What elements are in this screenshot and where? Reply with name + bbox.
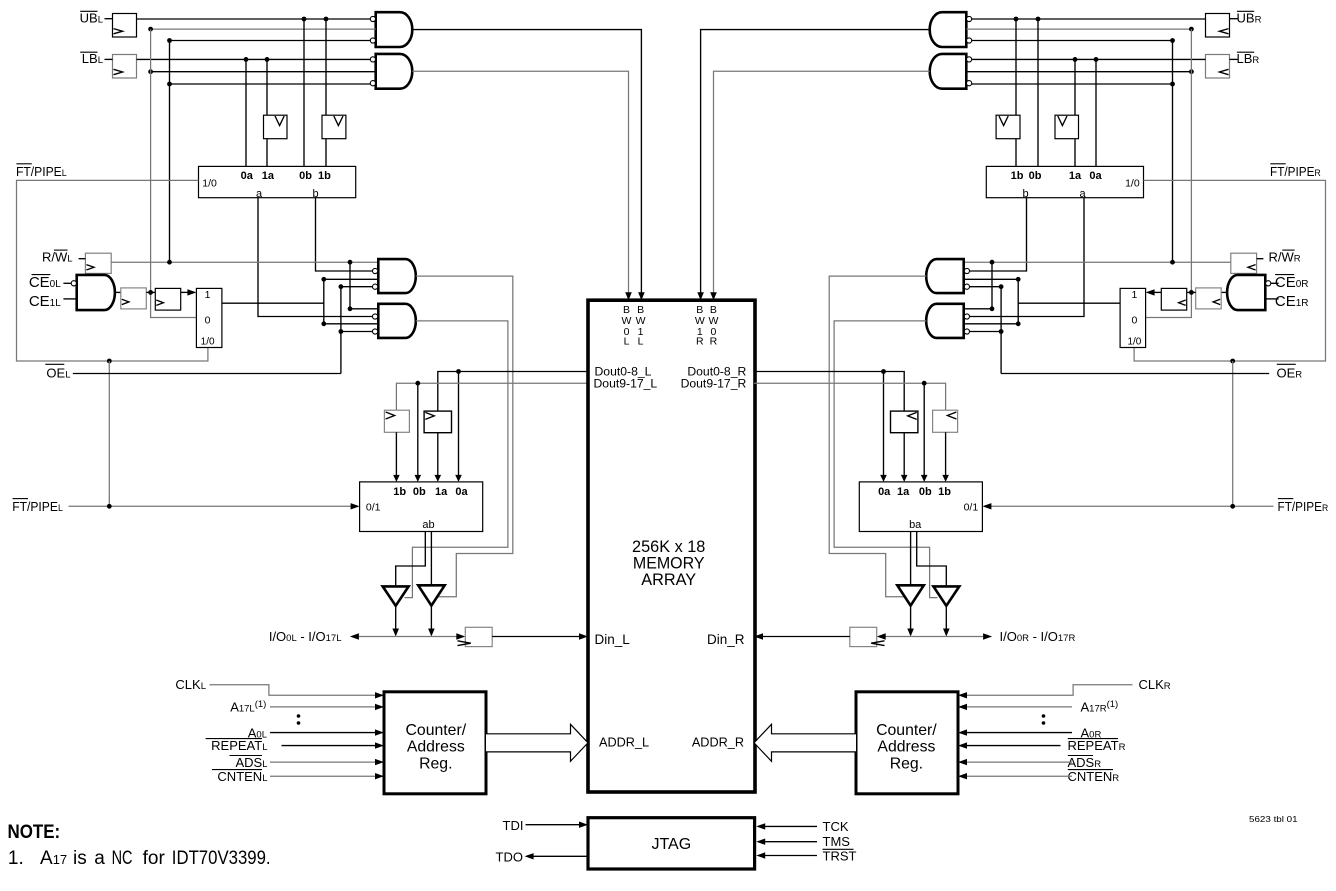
svg-text:Reg.: Reg.	[890, 755, 923, 772]
svg-text:Address: Address	[407, 739, 465, 756]
svg-text:Reg.: Reg.	[419, 755, 452, 772]
latch R/WR register	[1231, 253, 1257, 273]
wire select out right	[1018, 302, 1120, 304]
label CLKL	[175, 677, 206, 692]
junction RWR riser at UB in3	[1170, 38, 1175, 43]
wire FT/PIPEL to mux select	[17, 180, 208, 361]
pin 1b top mux left	[318, 170, 331, 182]
wire LBR_Q to LB gate	[972, 58, 1206, 60]
wire CE gate to latchA	[115, 291, 121, 293]
junction UBL_Q at 1b riser	[324, 17, 329, 22]
arrow BW0L into memory	[625, 292, 632, 300]
junction CER riser at UB in2	[1189, 27, 1194, 32]
pin Dout0-8_R label	[687, 364, 746, 378]
arrow A0R into counter	[958, 729, 967, 735]
bubble gate1R in4	[964, 284, 969, 289]
junction RW riser on RW line	[167, 260, 172, 265]
svg-text:0b: 0b	[919, 486, 932, 498]
and-gate OE lower right	[926, 304, 964, 338]
label 5623 tbl 01	[1249, 815, 1298, 824]
label CE0R	[1275, 274, 1309, 291]
junction CER node	[1189, 290, 1194, 295]
svg-text:R/WR: R/WR	[1269, 250, 1301, 265]
wire select to gate2 in3	[324, 323, 379, 325]
svg-text:1b: 1b	[393, 486, 406, 498]
wire CE1L tie	[63, 298, 76, 300]
wire R/WR pin tie	[1257, 258, 1264, 260]
bubble LBR gate input 3	[967, 81, 972, 86]
svg-text:256K x 18: 256K x 18	[632, 538, 705, 556]
svg-text:L: L	[638, 335, 644, 347]
arrow CLKR into counter	[958, 692, 967, 698]
bubble LB gate input 3	[370, 81, 375, 86]
bubble CE0R input	[1266, 281, 1271, 286]
svg-text:ab: ab	[422, 519, 434, 531]
wire CNTENR	[967, 775, 1072, 777]
svg-text:CE0L: CE0L	[29, 274, 61, 291]
svg-text:a: a	[94, 848, 105, 869]
bubble LBR gate input 1	[967, 57, 972, 62]
arrow 0b into dout mux	[415, 475, 422, 482]
wire FT/PIPER to dout mux	[991, 505, 1274, 507]
wire mux-ba a to tri1R	[917, 532, 947, 587]
svg-text:0a: 0a	[1089, 170, 1102, 182]
wire CLKR	[967, 685, 1133, 696]
pin 1b dout mux left	[393, 486, 406, 498]
label A17R	[1081, 699, 1119, 715]
pin 0a top mux left	[241, 170, 254, 182]
and-gate OE upper right	[926, 259, 964, 293]
svg-text:1/0: 1/0	[1125, 178, 1140, 190]
svg-text:A17R(1): A17R(1)	[1081, 699, 1119, 715]
counter/address reg box left	[384, 692, 486, 794]
junction OER at gate1	[999, 284, 1004, 289]
and-gate UB write enable left	[376, 12, 413, 47]
wire CE0L tie	[63, 282, 71, 284]
svg-text:CE0R: CE0R	[1275, 274, 1309, 291]
latch CE chain A	[121, 288, 147, 309]
arrow CNTENL into counter	[375, 773, 384, 779]
label TRST	[823, 848, 857, 863]
svg-text:JTAG: JTAG	[651, 836, 691, 853]
wire R/WL out to gate1	[111, 261, 378, 263]
wire tri2R to IO	[910, 606, 912, 629]
wire LBR gate out to BW0R	[714, 71, 930, 293]
svg-text:1/0: 1/0	[202, 178, 217, 190]
junction CE riser at LB in2	[148, 69, 153, 74]
label R/WL	[42, 250, 73, 265]
wire 1b riser lower	[325, 139, 327, 167]
svg-text:ADSR: ADSR	[1068, 755, 1102, 770]
wire OER to gate2 in4	[970, 331, 1002, 333]
junction UBR_Q at 1b riser	[1014, 17, 1019, 22]
wire LBR pin tie	[1230, 58, 1238, 60]
arrow ADSR into counter	[958, 759, 967, 765]
pin 0b dout mux right	[919, 486, 932, 498]
note heading	[8, 822, 61, 843]
wire LB gate out to BW0L	[412, 71, 628, 293]
pin b top mux right	[1022, 188, 1028, 200]
wire RW riser left	[169, 41, 171, 263]
svg-text:NC: NC	[112, 848, 133, 869]
wire CNTENL	[270, 775, 375, 777]
bus ADDR_R arrow	[754, 724, 856, 761]
wire FT/PIPER to mux select	[1134, 180, 1325, 361]
svg-text:FT/PIPER: FT/PIPER	[1270, 164, 1321, 179]
arrow Din_L into memory	[579, 633, 588, 639]
wire RW to UB gate input3	[170, 40, 371, 42]
selector box CE 1/0 right	[1120, 288, 1146, 347]
junction select to gate1	[321, 277, 326, 282]
svg-text:1b: 1b	[318, 170, 331, 182]
svg-text:B: B	[696, 304, 703, 316]
bubble UBR gate input 1	[967, 16, 972, 21]
label LBL	[80, 51, 103, 66]
svg-text:R/WL: R/WL	[42, 250, 73, 265]
wire select out	[222, 302, 324, 304]
junction UBR_Q at 0b riser	[1036, 17, 1041, 22]
svg-text:Counter/: Counter/	[406, 722, 467, 739]
latch UBL input register	[113, 14, 137, 38]
wire select to gate2 in3 right	[964, 323, 1019, 325]
label OER	[1277, 364, 1303, 380]
label memory title	[632, 538, 705, 589]
mux Dout right	[859, 482, 982, 532]
arrow FT/PIPER into dout mux	[982, 503, 991, 509]
arrow IO left out	[350, 633, 359, 639]
label I/O left	[269, 629, 342, 644]
pin Dout0-8_L label	[595, 364, 652, 378]
svg-text:TMS: TMS	[823, 834, 851, 849]
svg-text:B: B	[637, 304, 644, 316]
pin Dout9-17_L label	[594, 377, 658, 391]
svg-text:0/1: 0/1	[964, 502, 979, 514]
wire mux-ba b to tri2R	[910, 532, 912, 586]
wire CE0R tie	[1271, 282, 1279, 284]
latch CER chain A	[1196, 288, 1222, 309]
svg-text:I/O0L - I/O17L: I/O0L - I/O17L	[269, 629, 342, 644]
svg-text:IDT70V3399.: IDT70V3399.	[172, 848, 271, 869]
arrow A0L into counter	[375, 729, 384, 735]
wire LBL pin tie	[105, 58, 113, 60]
latch Dout 1a pipeline right	[891, 411, 918, 433]
pin BW0R column	[708, 304, 718, 348]
label A0R	[1081, 725, 1102, 740]
junction CE node	[148, 290, 153, 295]
svg-text:0b: 0b	[1029, 170, 1042, 182]
pin 1 select box left	[205, 289, 211, 301]
wire CE chain to UBR gate input2	[966, 28, 1191, 30]
pin 1/0 top mux right	[1125, 178, 1140, 190]
label REPEATL	[206, 738, 268, 753]
wire mux-a to gate2	[258, 198, 373, 317]
wire CLKL	[210, 685, 376, 696]
latch LBR input register	[1206, 55, 1230, 79]
wire TDO	[533, 855, 588, 857]
wire select riser	[323, 279, 325, 324]
svg-text:a: a	[256, 188, 263, 200]
counter/address reg box right	[856, 692, 958, 794]
svg-text:LBL: LBL	[82, 51, 103, 66]
wire 1b riser lower right	[1015, 139, 1017, 167]
wire 1a riser lower right	[1074, 139, 1076, 167]
pin 0 select box left	[205, 314, 211, 326]
buffer tri2 right	[897, 585, 924, 605]
junction LBR_Q at 0a riser	[1094, 57, 1099, 62]
pin 0b dout mux left	[413, 486, 426, 498]
wire Din latch to memory	[492, 636, 580, 638]
svg-text:5623 tbl 01: 5623 tbl 01	[1249, 815, 1298, 824]
wire A0L	[270, 732, 375, 734]
svg-text:CE1R: CE1R	[1275, 293, 1309, 310]
svg-text:ADDR_R: ADDR_R	[692, 735, 744, 749]
wire Dout9-17_L	[396, 383, 588, 410]
wire UBR_Q to UB gate	[972, 18, 1206, 20]
wire select to gate1 in3 right	[964, 278, 1019, 280]
and-gate CE left	[77, 275, 115, 310]
bubble UB gate input 3	[370, 38, 375, 43]
junction RW riser at UB in3	[167, 38, 172, 43]
wire latchB to select box	[181, 291, 188, 293]
wire IO line left	[359, 636, 457, 638]
svg-text:Dout9-17_R: Dout9-17_R	[681, 377, 747, 391]
jtag box	[588, 818, 755, 869]
svg-text:1: 1	[1131, 289, 1137, 301]
arrow TCK into jtag	[756, 823, 765, 829]
arrow tri2 to IO	[428, 629, 435, 637]
memory array box	[588, 300, 755, 792]
junction CER riser at LB in2	[1189, 69, 1194, 74]
wire Dout0-8_L	[438, 372, 588, 412]
pin 0b top mux right	[1029, 170, 1042, 182]
pin 1a dout mux left	[435, 486, 448, 498]
junction Dout0-8_L	[456, 369, 461, 374]
wire tri1 to IO	[395, 606, 397, 629]
label TCK	[823, 819, 849, 834]
wire gate1 out to tri2 enable	[416, 276, 513, 597]
wire R/WL pin tie	[79, 258, 86, 260]
svg-text:for: for	[143, 848, 166, 869]
bubble gate2R in2	[964, 314, 969, 319]
label CNTENL	[212, 769, 268, 784]
wire UB gate out to BW1L	[412, 30, 641, 293]
svg-text:1b: 1b	[1011, 170, 1024, 182]
wire RW riser right	[1172, 41, 1174, 263]
wire REPEATR	[967, 745, 1061, 747]
note line 1	[8, 848, 271, 869]
arrow Din_R into memory	[754, 633, 763, 639]
wire OEL riser	[340, 287, 342, 374]
junction LBR_Q at 1a riser	[1073, 57, 1078, 62]
wire Dout0-8_L to 0a	[458, 372, 460, 476]
arrow TDO out	[525, 853, 534, 859]
wire UBR gate out to BW1R	[701, 30, 930, 293]
wire Dout0-8_R to 0a	[883, 372, 885, 476]
svg-text:R: R	[710, 335, 718, 347]
label LBR	[1237, 51, 1260, 66]
junction select to gate2 right	[1016, 321, 1021, 326]
svg-text:0b: 0b	[413, 486, 426, 498]
svg-text:is: is	[73, 848, 87, 869]
wire REPEATL	[282, 745, 376, 747]
wire 0b riser right	[1037, 19, 1039, 166]
pin 1b top mux right	[1011, 170, 1024, 182]
wire latch1b to mux	[395, 432, 397, 475]
and-gate OE lower left	[378, 304, 416, 338]
label CE1R	[1275, 293, 1309, 310]
wire mux-b to gate1 right	[970, 198, 1027, 271]
svg-text:1a: 1a	[262, 170, 275, 182]
and-gate LB write enable left	[376, 54, 413, 89]
wire CE riser right	[1146, 29, 1192, 317]
wire 1a riser lower	[266, 139, 268, 167]
svg-text:A17: A17	[40, 848, 67, 869]
svg-text:Din_L: Din_L	[595, 632, 631, 647]
arrow 1b into dout mux	[393, 475, 400, 482]
junction RW at gate2 in1	[348, 306, 353, 311]
junction Dout9-17_R	[922, 381, 927, 386]
bubble gate2 in4	[373, 329, 378, 334]
bubble gate2 in2	[373, 314, 378, 319]
svg-text:NOTE:: NOTE:	[8, 822, 61, 843]
pin 0a top mux right	[1089, 170, 1102, 182]
svg-text:L: L	[624, 335, 630, 347]
latch CE chain B	[155, 288, 180, 310]
junction FT/PIPEL bottom	[107, 504, 112, 509]
svg-text:REPEATR: REPEATR	[1068, 738, 1126, 753]
arrow BW1R into memory	[697, 292, 704, 300]
svg-text:1a: 1a	[435, 486, 448, 498]
latch Din left	[458, 627, 493, 646]
wire A0R	[967, 732, 1072, 734]
arrow tri1 to IO	[392, 629, 399, 637]
label A0L	[248, 725, 267, 740]
junction RW riser at LB in3	[167, 82, 172, 87]
wire R/WR out to gate1	[964, 261, 1231, 263]
junction RWR riser at LB in3	[1170, 82, 1175, 87]
pin b top mux left	[312, 188, 318, 200]
svg-text:1: 1	[205, 289, 211, 301]
pin ba dout mux right	[909, 519, 922, 531]
wire gate1R out to tri2R enable	[829, 276, 926, 597]
pin Dout9-17_R label	[681, 377, 747, 391]
wire tri2 to IO	[430, 606, 432, 629]
wire Dout9-17_R	[754, 383, 946, 410]
svg-text:I/O0R - I/O17R: I/O0R - I/O17R	[1000, 629, 1076, 644]
arrow into Din latch	[456, 633, 465, 639]
wire latchA to latchB right	[1187, 291, 1196, 293]
wire RW branch to gate2 in1	[350, 262, 378, 309]
pin 1/0 select box right	[1127, 336, 1141, 347]
svg-text:B: B	[623, 304, 630, 316]
pin 0 select box right	[1131, 314, 1137, 326]
svg-text:CNTENL: CNTENL	[217, 769, 267, 784]
junction RWR riser on RW line	[1170, 260, 1175, 265]
pin BW1R column	[695, 304, 705, 348]
junction select to gate2	[321, 321, 326, 326]
latch Dout 1b pipeline left	[384, 410, 409, 432]
arrow REPEATR into counter	[958, 742, 967, 748]
wire IO line right	[885, 636, 983, 638]
svg-text:ba: ba	[909, 519, 922, 531]
junction OE at gate1	[339, 284, 344, 289]
label CLKR	[1139, 677, 1171, 692]
svg-text:TCK: TCK	[823, 819, 849, 834]
svg-text:REPEATL: REPEATL	[211, 738, 267, 753]
svg-text:UBR: UBR	[1237, 10, 1262, 25]
mux byte-enable left	[199, 166, 356, 197]
svg-text:0a: 0a	[455, 486, 468, 498]
svg-text:TRST: TRST	[823, 848, 857, 863]
junction OER at gate2	[999, 329, 1004, 334]
and-gate LB write enable right	[930, 54, 967, 89]
label FT/PIPER bottom	[1278, 499, 1329, 515]
label ADSR	[1068, 755, 1102, 770]
svg-text:1a: 1a	[897, 486, 910, 498]
wire OE to gate2 in4	[341, 331, 373, 333]
arrow tri1R to IO	[943, 629, 950, 637]
svg-text:R: R	[696, 335, 704, 347]
wire latchB to select box right	[1154, 291, 1161, 293]
svg-text:FT/PIPEL: FT/PIPEL	[12, 499, 63, 514]
wire latch1a to mux	[437, 433, 439, 476]
svg-text:ADSL: ADSL	[235, 755, 267, 770]
wire 0a riser right	[1095, 59, 1097, 166]
and-gate CE right	[1227, 275, 1265, 310]
arrow TRST into jtag	[756, 852, 765, 858]
svg-text:0a: 0a	[878, 486, 891, 498]
bubble UB gate input 1	[370, 16, 375, 21]
wire CE riser left	[151, 29, 197, 317]
pin 1a dout mux right	[897, 486, 910, 498]
arrow A17L into counter	[375, 704, 384, 710]
bubble CE0L input	[71, 281, 76, 286]
pin 1/0 select box left	[201, 336, 215, 347]
and-gate UB write enable right	[930, 12, 967, 47]
pin ab dout mux left	[422, 519, 434, 531]
bubble gate1R in2	[964, 268, 969, 273]
arrow BW1L into memory	[638, 292, 645, 300]
pin ADDR_L label	[599, 735, 649, 749]
arrow into Din latch right	[877, 633, 886, 639]
wire ADSR	[967, 761, 1072, 763]
svg-text:OER: OER	[1277, 366, 1303, 381]
wire CE chain to UB gate input2	[151, 28, 376, 30]
label TDI	[503, 818, 524, 833]
register V2R (1b pipeline latch)	[996, 115, 1020, 139]
wire mux-ab b to tri2	[430, 532, 432, 586]
wire TCK	[765, 825, 817, 827]
junction RW branch at x350	[348, 260, 353, 265]
latch CER chain B	[1161, 288, 1186, 310]
label CNTENR	[1068, 769, 1120, 784]
junction RWR at gate2 in1	[990, 306, 995, 311]
pin 1 select box right	[1131, 289, 1137, 301]
wire RW to LB gate input3	[170, 83, 371, 85]
label REPEATR	[1068, 738, 1126, 753]
svg-text:CNTENR: CNTENR	[1068, 769, 1120, 784]
wire 1a riser upper right	[1074, 59, 1076, 115]
wire mux-ab a to tri1	[396, 532, 426, 587]
pin 0/1 dout mux right	[964, 502, 979, 514]
svg-text:ADDR_L: ADDR_L	[599, 735, 649, 749]
pin 0a dout mux right	[878, 486, 891, 498]
junction select to gate1 right	[1016, 277, 1021, 282]
arrow FT/PIPEL into dout mux	[351, 503, 360, 509]
svg-text:Din_R: Din_R	[707, 632, 745, 647]
ellipsis address bus left	[297, 714, 301, 725]
arrow 1b into dout mux right	[942, 475, 949, 482]
